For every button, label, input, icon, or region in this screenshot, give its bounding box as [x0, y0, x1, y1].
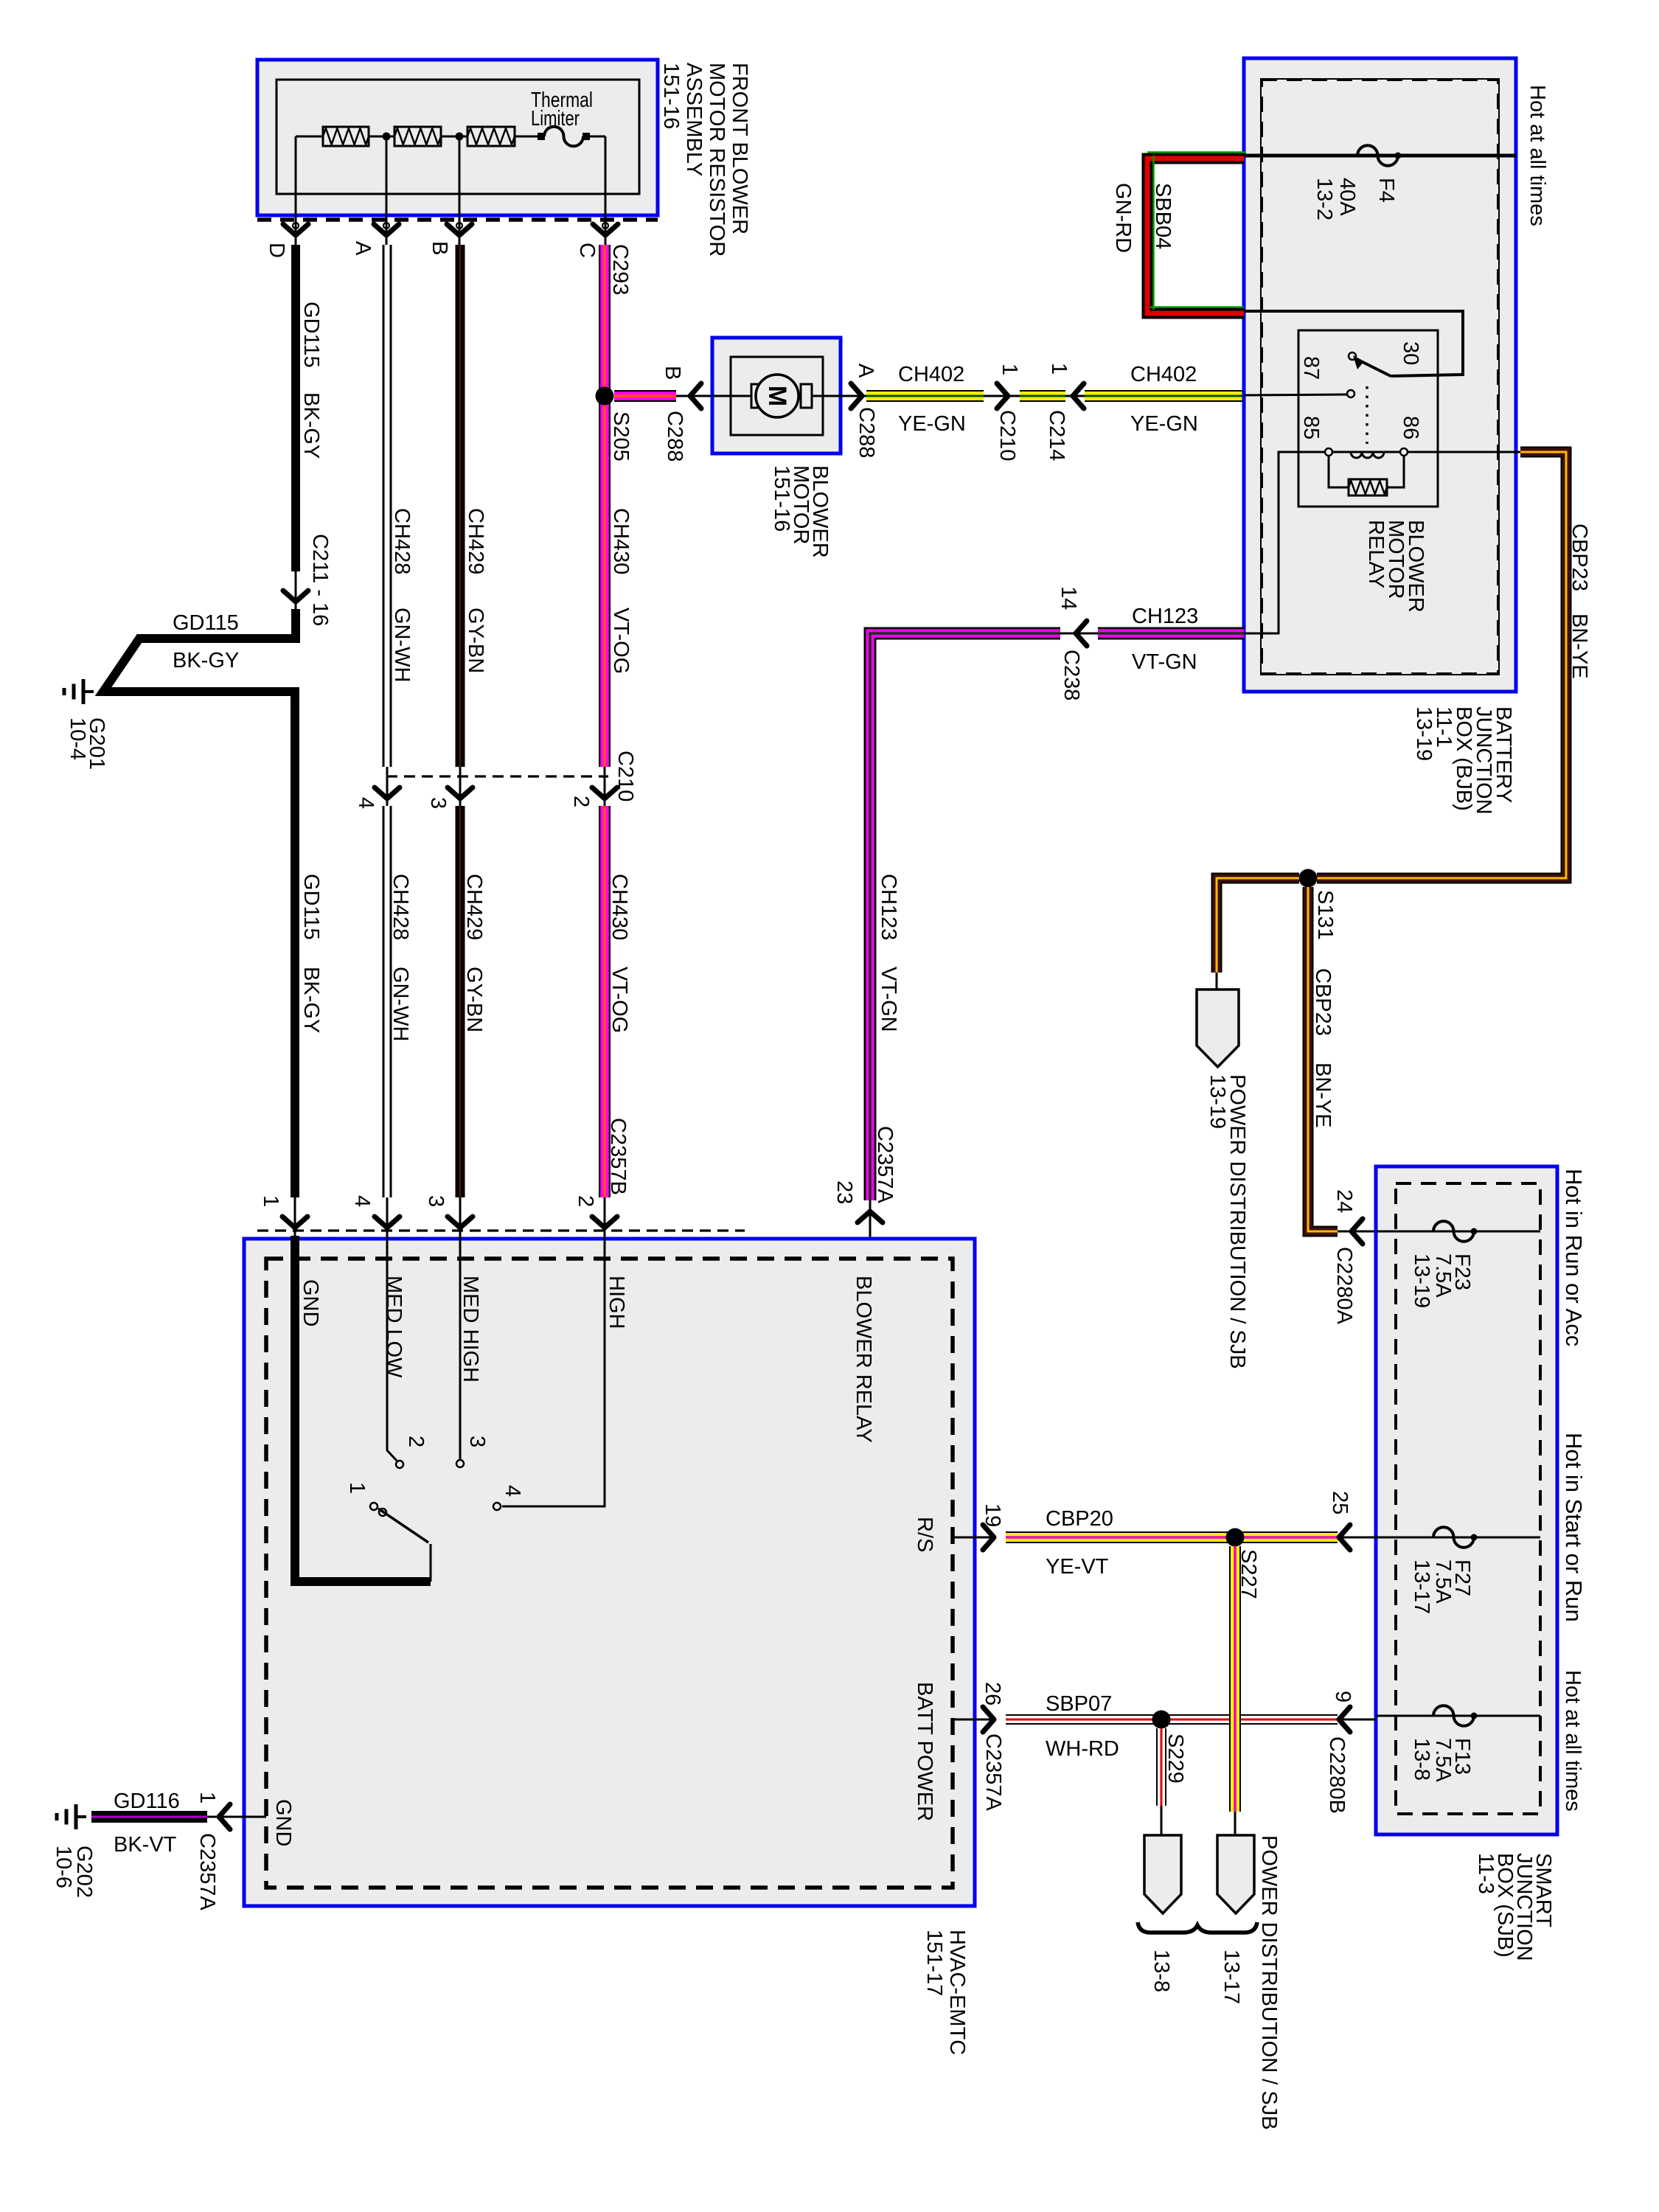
- splice S229 dot: [1152, 1711, 1171, 1729]
- svg-text:CBP23: CBP23: [1568, 524, 1591, 591]
- wire C thin at HVAC: [604, 1197, 606, 1239]
- svg-text:D: D: [265, 243, 288, 258]
- wire A at connector C210: [386, 767, 389, 808]
- svg-text:RELAY: RELAY: [1364, 520, 1388, 588]
- svg-text:BATT POWER: BATT POWER: [913, 1682, 936, 1821]
- svg-text:CH429: CH429: [464, 508, 487, 574]
- arrow into wire A: [374, 224, 399, 235]
- arrow pin 9: [1338, 1719, 1376, 1721]
- svg-text:CBP23: CBP23: [1311, 968, 1335, 1036]
- switch blade: [378, 1509, 428, 1543]
- wire pin A drop: [386, 136, 388, 245]
- svg-text:GD116: GD116: [114, 1790, 180, 1813]
- svg-text:C288: C288: [663, 411, 686, 462]
- svg-text:MED LOW: MED LOW: [382, 1276, 406, 1378]
- dashed inner box BJB: [1262, 80, 1498, 674]
- svg-text:13-19: 13-19: [1410, 1253, 1433, 1308]
- connector C2357B dashed line: [257, 1229, 745, 1231]
- svg-text:2: 2: [574, 1195, 597, 1207]
- wire GND inside HVAC: [295, 1236, 431, 1582]
- resistor R-med: [394, 127, 441, 146]
- svg-text:151-16: 151-16: [770, 465, 793, 532]
- svg-text:2: 2: [569, 796, 593, 807]
- thin wire motor to arrow A: [841, 395, 866, 397]
- svg-text:BK-GY: BK-GY: [173, 649, 239, 672]
- fuse F13 wire: [1376, 1715, 1540, 1717]
- svg-text:POWER DISTRIBUTION / SJB: POWER DISTRIBUTION / SJB: [1257, 1835, 1281, 2130]
- svg-text:FRONT BLOWER: FRONT BLOWER: [728, 63, 751, 234]
- svg-text:30: 30: [1399, 341, 1422, 365]
- wire CH402 YE-GN segment 1: [866, 390, 984, 402]
- relay actuation dotted line: [1366, 386, 1368, 444]
- wire SBB04 to relay pin 30: [1244, 311, 1463, 376]
- relay coil: [1325, 448, 1332, 456]
- svg-text:S205: S205: [609, 411, 633, 462]
- green stripe SBB04 bottom: [1150, 306, 1244, 308]
- svg-text:CH123: CH123: [877, 874, 900, 940]
- wire C CH430 lower: [599, 806, 611, 1197]
- svg-text:24: 24: [1332, 1189, 1356, 1213]
- svg-text:C210: C210: [995, 410, 1019, 461]
- svg-text:86: 86: [1399, 416, 1422, 439]
- svg-text:HVAC-EMTC: HVAC-EMTC: [945, 1930, 969, 2055]
- svg-text:13-8: 13-8: [1410, 1738, 1433, 1781]
- thermal limiter: [544, 127, 583, 147]
- switch common circle: [370, 1503, 378, 1510]
- arrow into wire B: [447, 224, 472, 235]
- svg-text:F4: F4: [1374, 178, 1398, 203]
- thin wire to switch blade: [430, 1544, 432, 1582]
- inner box resistor assembly: [276, 80, 639, 194]
- svg-text:13-19: 13-19: [1412, 706, 1436, 761]
- motor terminal right: [801, 384, 812, 408]
- arrow C238: [1076, 621, 1087, 646]
- svg-text:C288: C288: [855, 407, 878, 458]
- svg-text:Hot in Start or Run: Hot in Start or Run: [1561, 1433, 1587, 1622]
- arrow pin 26: [983, 1707, 994, 1732]
- svg-text:4: 4: [354, 797, 378, 809]
- svg-text:VT-GN: VT-GN: [877, 967, 900, 1032]
- connector C238 thin wire: [1060, 633, 1098, 635]
- ground G202: [76, 1815, 86, 1818]
- brace under pentagons: [1138, 1922, 1257, 1933]
- junction dot resistor chain A: [383, 133, 391, 141]
- wire CBP23 BN-YE from BJB to S131: [1317, 452, 1566, 878]
- svg-text:GY-BN: GY-BN: [462, 967, 486, 1032]
- arrow wire B C210: [448, 787, 473, 799]
- svg-text:C: C: [575, 243, 599, 258]
- svg-text:VT-GN: VT-GN: [1132, 650, 1197, 674]
- wire HIGH inside: [502, 1236, 605, 1506]
- svg-text:7.5A: 7.5A: [1431, 1253, 1455, 1298]
- box BLOWER MOTOR 151-16: [712, 338, 841, 453]
- svg-text:11-3: 11-3: [1474, 1853, 1498, 1894]
- svg-text:B: B: [428, 241, 451, 255]
- svg-text:BLOWER RELAY: BLOWER RELAY: [852, 1276, 875, 1443]
- svg-text:SBB04: SBB04: [1151, 183, 1175, 249]
- wire CH123 VT-GN right segment: [1098, 627, 1244, 640]
- thin wire to C288 B: [676, 395, 712, 397]
- svg-text:C238: C238: [1060, 650, 1083, 700]
- wire B thin at HVAC: [459, 1197, 462, 1239]
- thin wire pin 1 GND bottom: [207, 1816, 266, 1818]
- svg-text:C2280B: C2280B: [1325, 1736, 1349, 1814]
- svg-text:GND: GND: [299, 1279, 322, 1326]
- svg-text:13-2: 13-2: [1312, 178, 1336, 220]
- svg-text:CH428: CH428: [389, 874, 412, 940]
- svg-text:CH429: CH429: [462, 874, 486, 940]
- dashed inner box HVAC: [266, 1259, 953, 1888]
- svg-text:1: 1: [345, 1482, 369, 1494]
- fuse F4 40A: [1357, 145, 1398, 166]
- thin wire S229 to pentagon: [1161, 1806, 1163, 1837]
- fuse F27 wire: [1376, 1537, 1540, 1539]
- green stripe SBB04 vertical: [1152, 156, 1155, 310]
- motor terminal left: [751, 384, 762, 408]
- relay coil parallel resistor: [1329, 456, 1349, 487]
- thin wire to pentagon 13-19: [1216, 973, 1218, 991]
- connector C2280A thin wire: [1338, 1231, 1377, 1233]
- wire MED LOW inside: [387, 1236, 397, 1461]
- switch contact 3: [456, 1460, 464, 1467]
- connector C210 yellow thin wire: [984, 395, 1020, 397]
- fuse F13 7.5A: [1433, 1705, 1474, 1726]
- pentagon POWER DISTRIBUTION 13-8: [1144, 1835, 1181, 1913]
- wire resistor chain: [296, 136, 323, 138]
- svg-text:10-4: 10-4: [66, 717, 89, 760]
- arrow pin 23: [858, 1211, 883, 1222]
- pentagon POWER DISTRIBUTION 13-19: [1197, 990, 1239, 1067]
- wire S131 branch to power distribution: [1217, 878, 1299, 973]
- box blower motor relay: [1298, 330, 1438, 507]
- svg-text:R/S: R/S: [913, 1517, 936, 1552]
- wire GD116 BK-VT: [91, 1811, 207, 1823]
- svg-text:BK-GY: BK-GY: [299, 967, 323, 1033]
- svg-text:MED HIGH: MED HIGH: [459, 1276, 482, 1382]
- wire relay 86 to CBP23: [1408, 451, 1520, 453]
- svg-text:25: 25: [1328, 1491, 1352, 1514]
- svg-text:GN-RD: GN-RD: [1111, 183, 1135, 253]
- svg-text:Hot at all times: Hot at all times: [1561, 1670, 1585, 1812]
- svg-text:87: 87: [1299, 356, 1323, 380]
- svg-text:13-17: 13-17: [1410, 1559, 1433, 1614]
- wire A CH428 lower: [383, 806, 392, 1197]
- box SMART JUNCTION BOX (SJB): [1376, 1166, 1557, 1834]
- svg-text:ASSEMBLY: ASSEMBLY: [682, 63, 706, 176]
- switch contact 2: [396, 1461, 403, 1468]
- svg-text:151-16: 151-16: [659, 63, 683, 129]
- svg-text:WH-RD: WH-RD: [1046, 1737, 1119, 1761]
- svg-text:YE-GN: YE-GN: [1130, 412, 1198, 436]
- svg-text:BN-YE: BN-YE: [1568, 613, 1591, 679]
- svg-text:CH430: CH430: [609, 508, 633, 574]
- box HVAC-EMTC: [244, 1239, 975, 1906]
- arrow pin 25: [1338, 1537, 1376, 1539]
- fuse F27 7.5A: [1433, 1527, 1474, 1548]
- dashed inner box SJB: [1396, 1183, 1540, 1814]
- wire B at connector C210: [459, 767, 462, 808]
- svg-text:GN-WH: GN-WH: [389, 967, 412, 1041]
- svg-text:C214: C214: [1045, 410, 1068, 461]
- svg-text:C2357A: C2357A: [195, 1833, 219, 1910]
- wire CBP20 YE-VT: [1006, 1531, 1338, 1543]
- svg-text:C2357B: C2357B: [606, 1118, 630, 1195]
- svg-text:GD115: GD115: [173, 611, 239, 635]
- svg-text:4: 4: [501, 1485, 524, 1497]
- thin wire pin 23 into HVAC: [869, 1200, 872, 1259]
- arrow C211-16: [283, 591, 308, 602]
- inner box blower motor: [731, 357, 823, 435]
- arrow C214: [1073, 383, 1084, 408]
- svg-text:YE-VT: YE-VT: [1046, 1555, 1109, 1579]
- resistor R-low: [323, 127, 369, 146]
- wire S205 branch VT-OG: [614, 390, 676, 402]
- svg-text:GD115: GD115: [299, 874, 323, 940]
- thin wire S227 to pentagon: [1234, 1812, 1237, 1837]
- svg-text:23: 23: [832, 1180, 856, 1204]
- svg-text:CBP20: CBP20: [1046, 1507, 1113, 1531]
- svg-text:151-17: 151-17: [922, 1930, 946, 1996]
- svg-text:Limiter: Limiter: [531, 107, 580, 131]
- svg-text:BK-GY: BK-GY: [299, 392, 323, 459]
- arrow C288 B: [690, 383, 701, 408]
- wire CH402 YE-GN segment 3: [1085, 390, 1244, 402]
- arrow C2280A: [1352, 1219, 1363, 1244]
- splice S205 dot: [596, 387, 614, 406]
- arrow into wire D: [283, 224, 308, 235]
- wire GD115 to ground junction: [103, 609, 299, 692]
- arrow wire D HVAC: [282, 1217, 307, 1228]
- wire S227 crossing over SBP07: [1229, 1703, 1241, 1740]
- wire hot feed F4: [1244, 154, 1516, 158]
- svg-text:85: 85: [1299, 416, 1323, 439]
- wire pin B drop: [459, 136, 461, 245]
- motor circle M: [756, 375, 799, 417]
- svg-text:Hot in Run or Acc: Hot in Run or Acc: [1561, 1169, 1587, 1346]
- svg-text:13-8: 13-8: [1150, 1950, 1173, 1992]
- wire B CH429 lower: [456, 806, 465, 1197]
- relay switch blade: [1355, 358, 1391, 376]
- svg-text:13-19: 13-19: [1206, 1074, 1229, 1129]
- arrow pin 19: [983, 1525, 994, 1550]
- arrow wire B HVAC: [448, 1217, 473, 1228]
- svg-text:VT-OG: VT-OG: [608, 967, 631, 1033]
- svg-text:BN-YE: BN-YE: [1311, 1062, 1335, 1128]
- svg-text:4: 4: [350, 1195, 374, 1207]
- wire CH402 to contact 87: [1244, 394, 1347, 395]
- arrow pin 1 GND: [219, 1804, 230, 1829]
- box BATTERY JUNCTION BOX (BJB): [1244, 58, 1516, 692]
- svg-text:C2280A: C2280A: [1332, 1247, 1356, 1324]
- arrow wire A C210: [375, 787, 400, 799]
- svg-text:13-17: 13-17: [1220, 1950, 1243, 2004]
- svg-text:A: A: [854, 364, 877, 378]
- green stripe SBB04 top: [1147, 151, 1246, 153]
- arrow wire C C210: [592, 787, 617, 799]
- switch contact 4: [493, 1503, 501, 1510]
- wire C CH430 VT-OG upper: [599, 245, 611, 767]
- svg-text:MOTOR RESISTOR: MOTOR RESISTOR: [705, 63, 728, 257]
- wire through motor: [712, 395, 841, 397]
- wire D GD115 BK-GY upper: [291, 245, 300, 571]
- connector C210 dashed line: [386, 775, 608, 777]
- box FRONT BLOWER MOTOR RESISTOR ASSEMBLY 151-16: [257, 60, 658, 215]
- svg-text:VT-OG: VT-OG: [609, 608, 633, 674]
- junction dot resistor chain B: [456, 133, 464, 141]
- pin 26 thin wire: [953, 1719, 994, 1721]
- svg-text:3: 3: [426, 797, 450, 809]
- wire pin D drop: [295, 136, 297, 245]
- wire CBP23 BN-YE S131 down to C2280A: [1308, 887, 1338, 1231]
- svg-text:C2357A: C2357A: [873, 1126, 897, 1203]
- pin circles C293: [293, 223, 299, 229]
- ground G201: [83, 690, 94, 693]
- svg-text:GD115: GD115: [299, 302, 323, 368]
- svg-text:Hot at all times: Hot at all times: [1526, 85, 1549, 226]
- arrow C288 A: [851, 383, 862, 408]
- wire A CH428 GN-WH upper: [383, 245, 392, 767]
- svg-text:S229: S229: [1164, 1733, 1187, 1784]
- svg-text:GN-WH: GN-WH: [390, 608, 414, 682]
- svg-text:1: 1: [998, 364, 1021, 375]
- svg-text:HIGH: HIGH: [605, 1276, 628, 1329]
- arrow wire A HVAC: [375, 1217, 400, 1228]
- svg-text:26: 26: [981, 1682, 1004, 1705]
- svg-text:C211 - 16: C211 - 16: [308, 534, 332, 626]
- svg-text:GY-BN: GY-BN: [464, 608, 487, 673]
- wire SBB04 GN-RD: [1147, 159, 1244, 313]
- wire CH123 VT-GN to HVAC: [870, 633, 1060, 1200]
- svg-text:SBP07: SBP07: [1046, 1692, 1112, 1716]
- arrow wire C HVAC: [592, 1217, 617, 1228]
- svg-text:S131: S131: [1313, 890, 1337, 940]
- wire C at connector C210: [604, 767, 606, 808]
- svg-text:7.5A: 7.5A: [1431, 1559, 1455, 1604]
- splice S227 dot: [1226, 1528, 1245, 1547]
- wire pin C drop: [605, 136, 607, 245]
- svg-text:CH428: CH428: [390, 508, 414, 574]
- svg-text:3: 3: [465, 1436, 489, 1447]
- wire S229 down: [1156, 1728, 1166, 1806]
- svg-text:10-6: 10-6: [52, 1846, 75, 1888]
- wire MED HIGH inside: [459, 1236, 462, 1459]
- wire B CH429 GY-BN upper: [456, 245, 465, 767]
- svg-text:M: M: [763, 386, 791, 406]
- wire D thin at HVAC: [294, 1197, 296, 1239]
- pentagon POWER DISTRIBUTION 13-17: [1217, 1835, 1254, 1913]
- svg-text:19: 19: [981, 1503, 1004, 1527]
- svg-text:1: 1: [1047, 363, 1071, 375]
- svg-text:B: B: [661, 366, 684, 380]
- arrow C210 yellow: [997, 383, 1008, 408]
- svg-text:C293: C293: [608, 244, 632, 295]
- connector C214 thin wire: [1065, 395, 1090, 397]
- fuse F23 wire: [1376, 1231, 1540, 1233]
- fuse F23 7.5A: [1433, 1221, 1474, 1242]
- svg-text:CH402: CH402: [898, 363, 964, 386]
- connector C293 dashed line: [257, 218, 658, 222]
- svg-text:2: 2: [404, 1436, 428, 1447]
- wire SBP07 WH-RD: [1006, 1714, 1338, 1725]
- pin 19 thin wire: [953, 1537, 994, 1539]
- relay switch pivot: [1349, 352, 1356, 360]
- svg-text:9: 9: [1331, 1691, 1354, 1703]
- svg-text:GND: GND: [271, 1799, 295, 1846]
- svg-text:C2357A: C2357A: [981, 1733, 1005, 1811]
- svg-text:CH123: CH123: [1132, 605, 1198, 628]
- svg-text:7.5A: 7.5A: [1431, 1738, 1455, 1782]
- svg-text:40A: 40A: [1335, 178, 1359, 216]
- svg-text:14: 14: [1057, 586, 1080, 610]
- wire A thin at HVAC: [386, 1197, 389, 1239]
- svg-text:1: 1: [195, 1792, 219, 1804]
- svg-text:3: 3: [424, 1195, 448, 1207]
- svg-text:1: 1: [259, 1195, 282, 1207]
- connector C211-16 thin wire: [295, 571, 297, 613]
- wire relay 85 to CH123: [1244, 452, 1325, 633]
- svg-text:CH402: CH402: [1130, 363, 1197, 386]
- wire D GND down to HVAC: [291, 692, 299, 1197]
- svg-text:YE-GN: YE-GN: [898, 412, 966, 436]
- svg-text:CH430: CH430: [608, 874, 631, 940]
- svg-text:C210: C210: [613, 751, 637, 801]
- resistor R-high: [467, 127, 515, 146]
- splice S131 dot: [1299, 869, 1318, 888]
- wire S227 down: [1229, 1546, 1241, 1812]
- svg-text:BK-VT: BK-VT: [114, 1833, 177, 1857]
- arrow into wire C: [593, 224, 618, 235]
- wire CH402 YE-GN segment 2: [1020, 390, 1065, 402]
- relay contact 87: [1347, 390, 1354, 397]
- svg-text:A: A: [351, 241, 375, 256]
